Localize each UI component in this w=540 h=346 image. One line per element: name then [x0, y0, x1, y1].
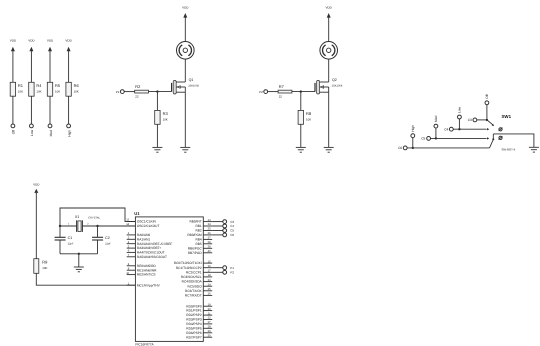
transistor Q1 2SK1058 — [172, 78, 200, 94]
wire P1 to R2 — [124, 91, 135, 93]
terminal C3 (MCU) — [223, 220, 235, 224]
terminal C6 (switch) — [398, 146, 407, 150]
svg-text:39: 39 — [208, 246, 211, 249]
wire net C6 to SW1 contact 4 — [407, 147, 489, 149]
svg-text:10K: 10K — [306, 117, 311, 121]
svg-text:Low: Low — [30, 129, 34, 136]
svg-text:Off: Off — [485, 94, 489, 98]
input terminal P2 — [259, 90, 267, 94]
wire R6 to terminal — [68, 96, 70, 124]
svg-text:22pF: 22pF — [68, 243, 74, 246]
wire Q2 source to ground — [328, 92, 330, 147]
terminal Low (switch position) — [458, 106, 462, 119]
wire Off stub — [486, 105, 488, 120]
terminal Med (switch position) — [434, 116, 438, 128]
node A junction — [156, 90, 158, 92]
wire VDD to R1 — [12, 51, 14, 82]
wire net C4 to SW1 contact 2 — [453, 128, 489, 130]
svg-text:R2: R2 — [135, 84, 141, 89]
pin 38 RB5 — [195, 241, 212, 246]
power VDD (Q2 drain rail) — [326, 6, 333, 19]
pin 24 RC5/SDO — [188, 283, 213, 288]
svg-text:OSC1/CLKIN: OSC1/CLKIN — [137, 220, 157, 224]
svg-text:MCLR/Vpp/THV: MCLR/Vpp/THV — [137, 283, 161, 287]
SW1 contact 1 arm — [487, 120, 494, 126]
svg-text:RD2/PSP2: RD2/PSP2 — [186, 313, 202, 317]
wire node to C1 — [59, 226, 61, 237]
svg-text:10K: 10K — [18, 90, 23, 94]
svg-text:RD7/PSP7: RD7/PSP7 — [186, 335, 202, 339]
svg-text:21: 21 — [208, 312, 211, 315]
pin 26 RC7/RX/DT — [185, 293, 212, 298]
terminal High (switch position) — [411, 125, 415, 138]
wire net C3 to SW1 contact 1 — [477, 119, 487, 121]
svg-text:RE0/AN5/RD: RE0/AN5/RD — [137, 264, 156, 268]
switch SW1 label — [502, 114, 512, 119]
resistor R5 10K — [47, 82, 61, 96]
pin 18 RC3/SCK/SCL — [181, 274, 212, 279]
svg-text:22pF: 22pF — [105, 243, 111, 246]
pin 20 RD1/PSP1 — [186, 308, 212, 313]
svg-text:22: 22 — [135, 94, 139, 98]
svg-text:C4: C4 — [444, 127, 448, 131]
svg-text:2SK1058: 2SK1058 — [188, 85, 199, 88]
wire R7 to Q2 gate — [292, 91, 315, 93]
pin 35 RB2 — [195, 228, 212, 233]
capacitor C2 22pF — [92, 236, 111, 245]
node C3 junction — [486, 119, 488, 121]
svg-text:22: 22 — [279, 94, 283, 98]
svg-text:Q2: Q2 — [332, 78, 337, 82]
resistor R7 22 — [278, 84, 292, 98]
svg-text:14: 14 — [126, 223, 129, 226]
pin 27 RD4/PSP4 — [186, 321, 212, 326]
svg-text:VDD: VDD — [326, 6, 333, 10]
pin 22 RD3/PSP3 — [186, 317, 212, 322]
node B junction — [300, 90, 302, 92]
SW1 pole contact b — [499, 136, 503, 139]
terminal C6 (MCU) — [223, 233, 235, 237]
wire Med stub — [435, 128, 437, 138]
terminal P1 (MCU) — [223, 266, 234, 270]
svg-text:10K: 10K — [74, 90, 79, 94]
wire net C5 to SW1 contact 3 — [431, 137, 490, 139]
power VDD (R9) — [33, 183, 40, 194]
pin 10 RE2/AN7/CS — [126, 272, 155, 277]
svg-text:CRYSTAL: CRYSTAL — [88, 217, 100, 220]
svg-text:R4: R4 — [36, 83, 42, 88]
svg-text:16: 16 — [208, 265, 211, 268]
wire SW1 common to ground — [493, 134, 534, 147]
pin 19 RD0/PSP0 — [186, 303, 212, 308]
wire VDD to R5 — [49, 51, 51, 82]
buzzer LS2 — [320, 42, 338, 60]
pin 5 RA3/AN3/VREF+ — [127, 245, 162, 250]
svg-text:C3: C3 — [230, 220, 234, 224]
wire node to C2 — [97, 226, 99, 237]
pin 14 OSC2/CLKOUT — [126, 223, 159, 228]
svg-text:RA2/AN2/VREF-/CVREF: RA2/AN2/VREF-/CVREF — [137, 242, 172, 246]
node C5 junction — [435, 137, 437, 139]
terminal C3 (switch) — [468, 118, 477, 122]
pin 40 RB7/PGD — [188, 250, 213, 255]
power VDD (R4) — [28, 39, 35, 52]
node rail junction — [78, 253, 80, 255]
wire VDD to buzzer LS1 — [184, 18, 186, 42]
svg-text:VDD: VDD — [182, 6, 189, 10]
wire RC2 to P2 — [212, 271, 223, 273]
wire OSC1 loop — [60, 208, 136, 226]
wire C1 to rail — [59, 240, 61, 254]
svg-text:RB3/PGM: RB3/PGM — [187, 233, 202, 237]
svg-text:SW1: SW1 — [502, 114, 512, 119]
terminal Off (switch position) — [485, 94, 489, 104]
svg-text:30: 30 — [208, 334, 211, 337]
svg-text:PIC16F877A: PIC16F877A — [135, 342, 154, 346]
svg-text:P1: P1 — [116, 90, 120, 94]
wire A to R3 — [156, 92, 158, 111]
svg-text:R5: R5 — [55, 83, 61, 88]
pin 4 RA2/AN2/VREF-/CVREF — [127, 241, 173, 246]
svg-text:28: 28 — [208, 326, 211, 329]
power VDD (Q1 drain rail) — [182, 6, 189, 19]
terminal C5 (switch) — [421, 137, 430, 141]
svg-text:C1: C1 — [68, 236, 73, 240]
wire R1 to terminal — [12, 96, 14, 124]
svg-text:RD0/PSP0: RD0/PSP0 — [186, 304, 202, 308]
svg-text:23: 23 — [208, 279, 211, 282]
switch SW1 part number — [502, 148, 516, 152]
svg-text:24: 24 — [208, 283, 211, 286]
svg-text:Q1: Q1 — [189, 78, 194, 82]
pin 3 RA1/AN1 — [127, 237, 151, 242]
svg-text:RC7/RX/DT: RC7/RX/DT — [185, 294, 202, 298]
pin 21 RD2/PSP2 — [186, 312, 212, 317]
svg-text:High: High — [411, 125, 415, 132]
pin 36 RB3/PGM — [187, 232, 212, 237]
terminal High (pull-up) — [67, 124, 72, 137]
svg-text:10K: 10K — [42, 266, 47, 270]
node X1 pin 2 junction — [96, 225, 98, 227]
svg-text:RE1/AN6/WR: RE1/AN6/WR — [137, 268, 157, 272]
svg-text:RE2/AN7/CS: RE2/AN7/CS — [137, 273, 156, 277]
SW1 pole contact a — [499, 128, 503, 131]
resistor R9 10K — [34, 259, 48, 274]
node C6 junction — [412, 147, 414, 149]
svg-text:R1: R1 — [18, 83, 24, 88]
resistor R6 10K — [66, 82, 80, 96]
pin 2 RA0/AN0 — [127, 232, 151, 237]
pin 29 RD6/PSP6 — [186, 330, 212, 335]
terminal C4 (switch) — [444, 127, 453, 131]
pin 25 RC6/TX/CK — [185, 288, 212, 293]
pin 6 RA4/T0CKI/C1OUT — [127, 250, 165, 255]
svg-text:C5: C5 — [421, 137, 425, 141]
wire R5 to terminal — [49, 96, 51, 124]
ground (Q1 source) — [180, 147, 190, 152]
wire Low stub — [458, 119, 460, 129]
svg-text:RB4: RB4 — [195, 238, 201, 242]
ground (crystal) — [74, 267, 84, 272]
svg-text:C3: C3 — [468, 118, 472, 122]
svg-text:X1: X1 — [75, 215, 79, 219]
svg-text:RA1/AN1: RA1/AN1 — [137, 237, 151, 241]
svg-text:RB2: RB2 — [195, 229, 201, 233]
wire RB0 to C3 — [212, 221, 223, 223]
svg-text:SW-ROT-4: SW-ROT-4 — [502, 148, 516, 152]
svg-text:R7: R7 — [279, 84, 285, 89]
power VDD (R5) — [47, 39, 54, 52]
ground (Q2 source) — [324, 147, 334, 152]
svg-text:40: 40 — [208, 250, 211, 253]
wire VDD to buzzer LS2 — [328, 18, 330, 42]
svg-text:VDD: VDD — [65, 39, 72, 43]
terminal Med (pull-up) — [48, 124, 53, 136]
svg-text:C6: C6 — [230, 233, 234, 237]
wire rail to ground — [78, 254, 80, 267]
crystal X1 — [68, 215, 101, 232]
svg-text:RB5: RB5 — [195, 242, 201, 246]
wire R2 to Q1 gate — [149, 91, 172, 93]
wire RB3 to C6 — [212, 234, 223, 236]
wire R9 to MCLR pin 1 — [36, 273, 135, 285]
resistor R3 10K — [155, 110, 169, 124]
pin 8 RE0/AN5/RD — [127, 263, 157, 268]
svg-text:25: 25 — [208, 288, 211, 291]
svg-text:RB1: RB1 — [195, 224, 201, 228]
svg-text:OSC2/CLKOUT: OSC2/CLKOUT — [137, 224, 160, 228]
svg-text:10K: 10K — [163, 117, 168, 121]
pin 13 OSC1/CLKIN — [126, 219, 156, 224]
svg-text:RC3/SCK/SCL: RC3/SCK/SCL — [181, 275, 202, 279]
svg-text:RA0/AN0: RA0/AN0 — [137, 233, 151, 237]
transistor Q2 2SK1058 — [315, 78, 343, 94]
svg-text:VDD: VDD — [10, 39, 17, 43]
resistor R8 10K — [298, 110, 312, 124]
wire buzzer to Q2 drain — [328, 59, 330, 82]
svg-text:C4: C4 — [230, 224, 234, 228]
svg-text:R3: R3 — [163, 111, 169, 116]
node X1 pin 1 junction — [59, 225, 61, 227]
wire Q1 source to ground — [184, 92, 186, 147]
terminal Low (pull-up) — [30, 124, 35, 136]
wire R8 to ground — [300, 124, 302, 147]
svg-text:C5: C5 — [230, 229, 234, 233]
wire RB1 to C4 — [212, 225, 223, 227]
wire P2 to R7 — [268, 91, 279, 93]
svg-text:29: 29 — [208, 330, 211, 333]
wire C2 to rail — [97, 240, 99, 254]
pin 1 MCLR/Vpp/THV — [127, 282, 161, 287]
svg-text:RA5/AN4/SS/C2OUT: RA5/AN4/SS/C2OUT — [137, 255, 167, 259]
resistor R1 10K — [10, 82, 24, 96]
pin 37 RB4 — [195, 237, 212, 242]
wire buzzer to Q1 drain — [184, 59, 186, 82]
svg-text:P1: P1 — [230, 266, 234, 270]
pin 7 RA5/AN4/SS/C2OUT — [127, 254, 167, 259]
SW1 wiper arm — [490, 134, 495, 148]
pin 16 RC1/T1OSI/CCP2 — [176, 265, 212, 270]
svg-text:R8: R8 — [306, 111, 312, 116]
svg-text:R9: R9 — [42, 259, 48, 264]
svg-text:RD6/PSP6: RD6/PSP6 — [186, 331, 202, 335]
svg-text:2SK1058: 2SK1058 — [332, 85, 343, 88]
svg-text:Med: Med — [434, 116, 438, 123]
svg-text:Low: Low — [458, 106, 462, 113]
pin 9 RE1/AN6/WR — [127, 267, 157, 272]
svg-text:35: 35 — [208, 228, 211, 231]
ground (R3) — [152, 147, 162, 152]
pin 15 RC0/T1OSO/T1CKI — [174, 260, 213, 265]
svg-text:VDD: VDD — [47, 39, 54, 43]
svg-text:RC1/T1OSI/CCP2: RC1/T1OSI/CCP2 — [176, 266, 202, 270]
terminal P2 (MCU) — [223, 270, 234, 274]
svg-text:27: 27 — [208, 321, 211, 324]
svg-text:13: 13 — [126, 219, 129, 222]
svg-text:RC4/SDI/SDA: RC4/SDI/SDA — [182, 280, 203, 284]
svg-text:R6: R6 — [74, 83, 80, 88]
buzzer LS1 — [177, 42, 195, 60]
IC U1 body PIC16F877A — [135, 217, 203, 346]
svg-text:U1: U1 — [134, 211, 140, 216]
svg-text:Off: Off — [12, 130, 16, 134]
svg-text:33: 33 — [208, 219, 211, 222]
wire VDD to R4 — [30, 51, 32, 82]
svg-text:17: 17 — [208, 270, 211, 273]
wire R4 to terminal — [30, 96, 32, 124]
svg-text:High: High — [67, 130, 71, 137]
resistor R2 22 — [135, 84, 149, 98]
pin 28 RD5/PSP5 — [186, 326, 212, 331]
terminal Off (pull-up) — [11, 124, 16, 134]
svg-text:22: 22 — [208, 317, 211, 320]
svg-text:RC2/CCP1: RC2/CCP1 — [186, 270, 202, 274]
wire crystal to OSC2 — [60, 225, 136, 227]
svg-text:C6: C6 — [398, 146, 402, 150]
pin 30 RD7/PSP7 — [186, 334, 212, 339]
svg-text:RD4/PSP4: RD4/PSP4 — [186, 322, 202, 326]
svg-text:38: 38 — [208, 241, 211, 244]
wire RB2 to C5 — [212, 230, 223, 232]
svg-text:18: 18 — [208, 274, 211, 277]
ground (R8) — [296, 147, 306, 152]
svg-text:19: 19 — [208, 303, 211, 306]
svg-text:RB6/PGC: RB6/PGC — [188, 246, 203, 250]
pin 34 RB1 — [195, 223, 212, 228]
IC U1 reference label — [134, 211, 140, 216]
svg-text:RC5/SDO: RC5/SDO — [188, 284, 203, 288]
svg-text:RC0/T1OSO/T1CKI: RC0/T1OSO/T1CKI — [174, 261, 202, 265]
svg-text:20: 20 — [208, 308, 211, 311]
svg-text:10K: 10K — [55, 90, 60, 94]
svg-text:P2: P2 — [259, 90, 263, 94]
wire VDD to R6 — [68, 51, 70, 82]
svg-text:VDD: VDD — [33, 183, 40, 187]
svg-text:37: 37 — [208, 237, 211, 240]
svg-text:15: 15 — [208, 260, 211, 263]
svg-text:C2: C2 — [105, 236, 110, 240]
power VDD (R1) — [10, 39, 17, 52]
wire caps ground rail — [60, 253, 98, 255]
ground (SW1 common) — [529, 147, 539, 152]
capacitor C1 22pF — [55, 236, 74, 245]
svg-text:26: 26 — [208, 293, 211, 296]
wire VDD to R9 — [35, 193, 37, 259]
svg-text:VDD: VDD — [28, 39, 35, 43]
svg-text:Med: Med — [49, 130, 53, 137]
node C4 junction — [458, 128, 460, 130]
pin 39 RB6/PGC — [188, 246, 213, 251]
svg-text:RD1/PSP1: RD1/PSP1 — [186, 309, 202, 313]
pin 33 RB0/INT — [189, 219, 212, 224]
svg-text:10: 10 — [126, 272, 129, 275]
svg-text:P2: P2 — [230, 271, 234, 275]
svg-text:RB7/PGD: RB7/PGD — [188, 251, 203, 255]
terminal C5 (MCU) — [223, 229, 235, 233]
svg-text:RD3/PSP3: RD3/PSP3 — [186, 318, 202, 322]
svg-text:RD5/PSP5: RD5/PSP5 — [186, 326, 202, 330]
power VDD (R6) — [65, 39, 72, 52]
pin 23 RC4/SDI/SDA — [182, 279, 213, 284]
svg-text:RA4/T0CKI/C1OUT: RA4/T0CKI/C1OUT — [137, 251, 165, 255]
svg-text:RC6/TX/CK: RC6/TX/CK — [185, 289, 203, 293]
wire RC1 to P1 — [212, 267, 223, 269]
resistor R4 10K — [29, 82, 43, 96]
svg-text:RB0/INT: RB0/INT — [189, 220, 201, 224]
wire High stub — [412, 138, 414, 148]
wire B to R8 — [300, 92, 302, 111]
svg-text:36: 36 — [208, 232, 211, 235]
svg-text:34: 34 — [208, 223, 211, 226]
terminal C4 (MCU) — [223, 224, 235, 228]
wire R3 to ground — [156, 124, 158, 147]
input terminal P1 — [116, 90, 124, 94]
svg-text:10K: 10K — [36, 90, 41, 94]
pin 17 RC2/CCP1 — [186, 270, 212, 275]
